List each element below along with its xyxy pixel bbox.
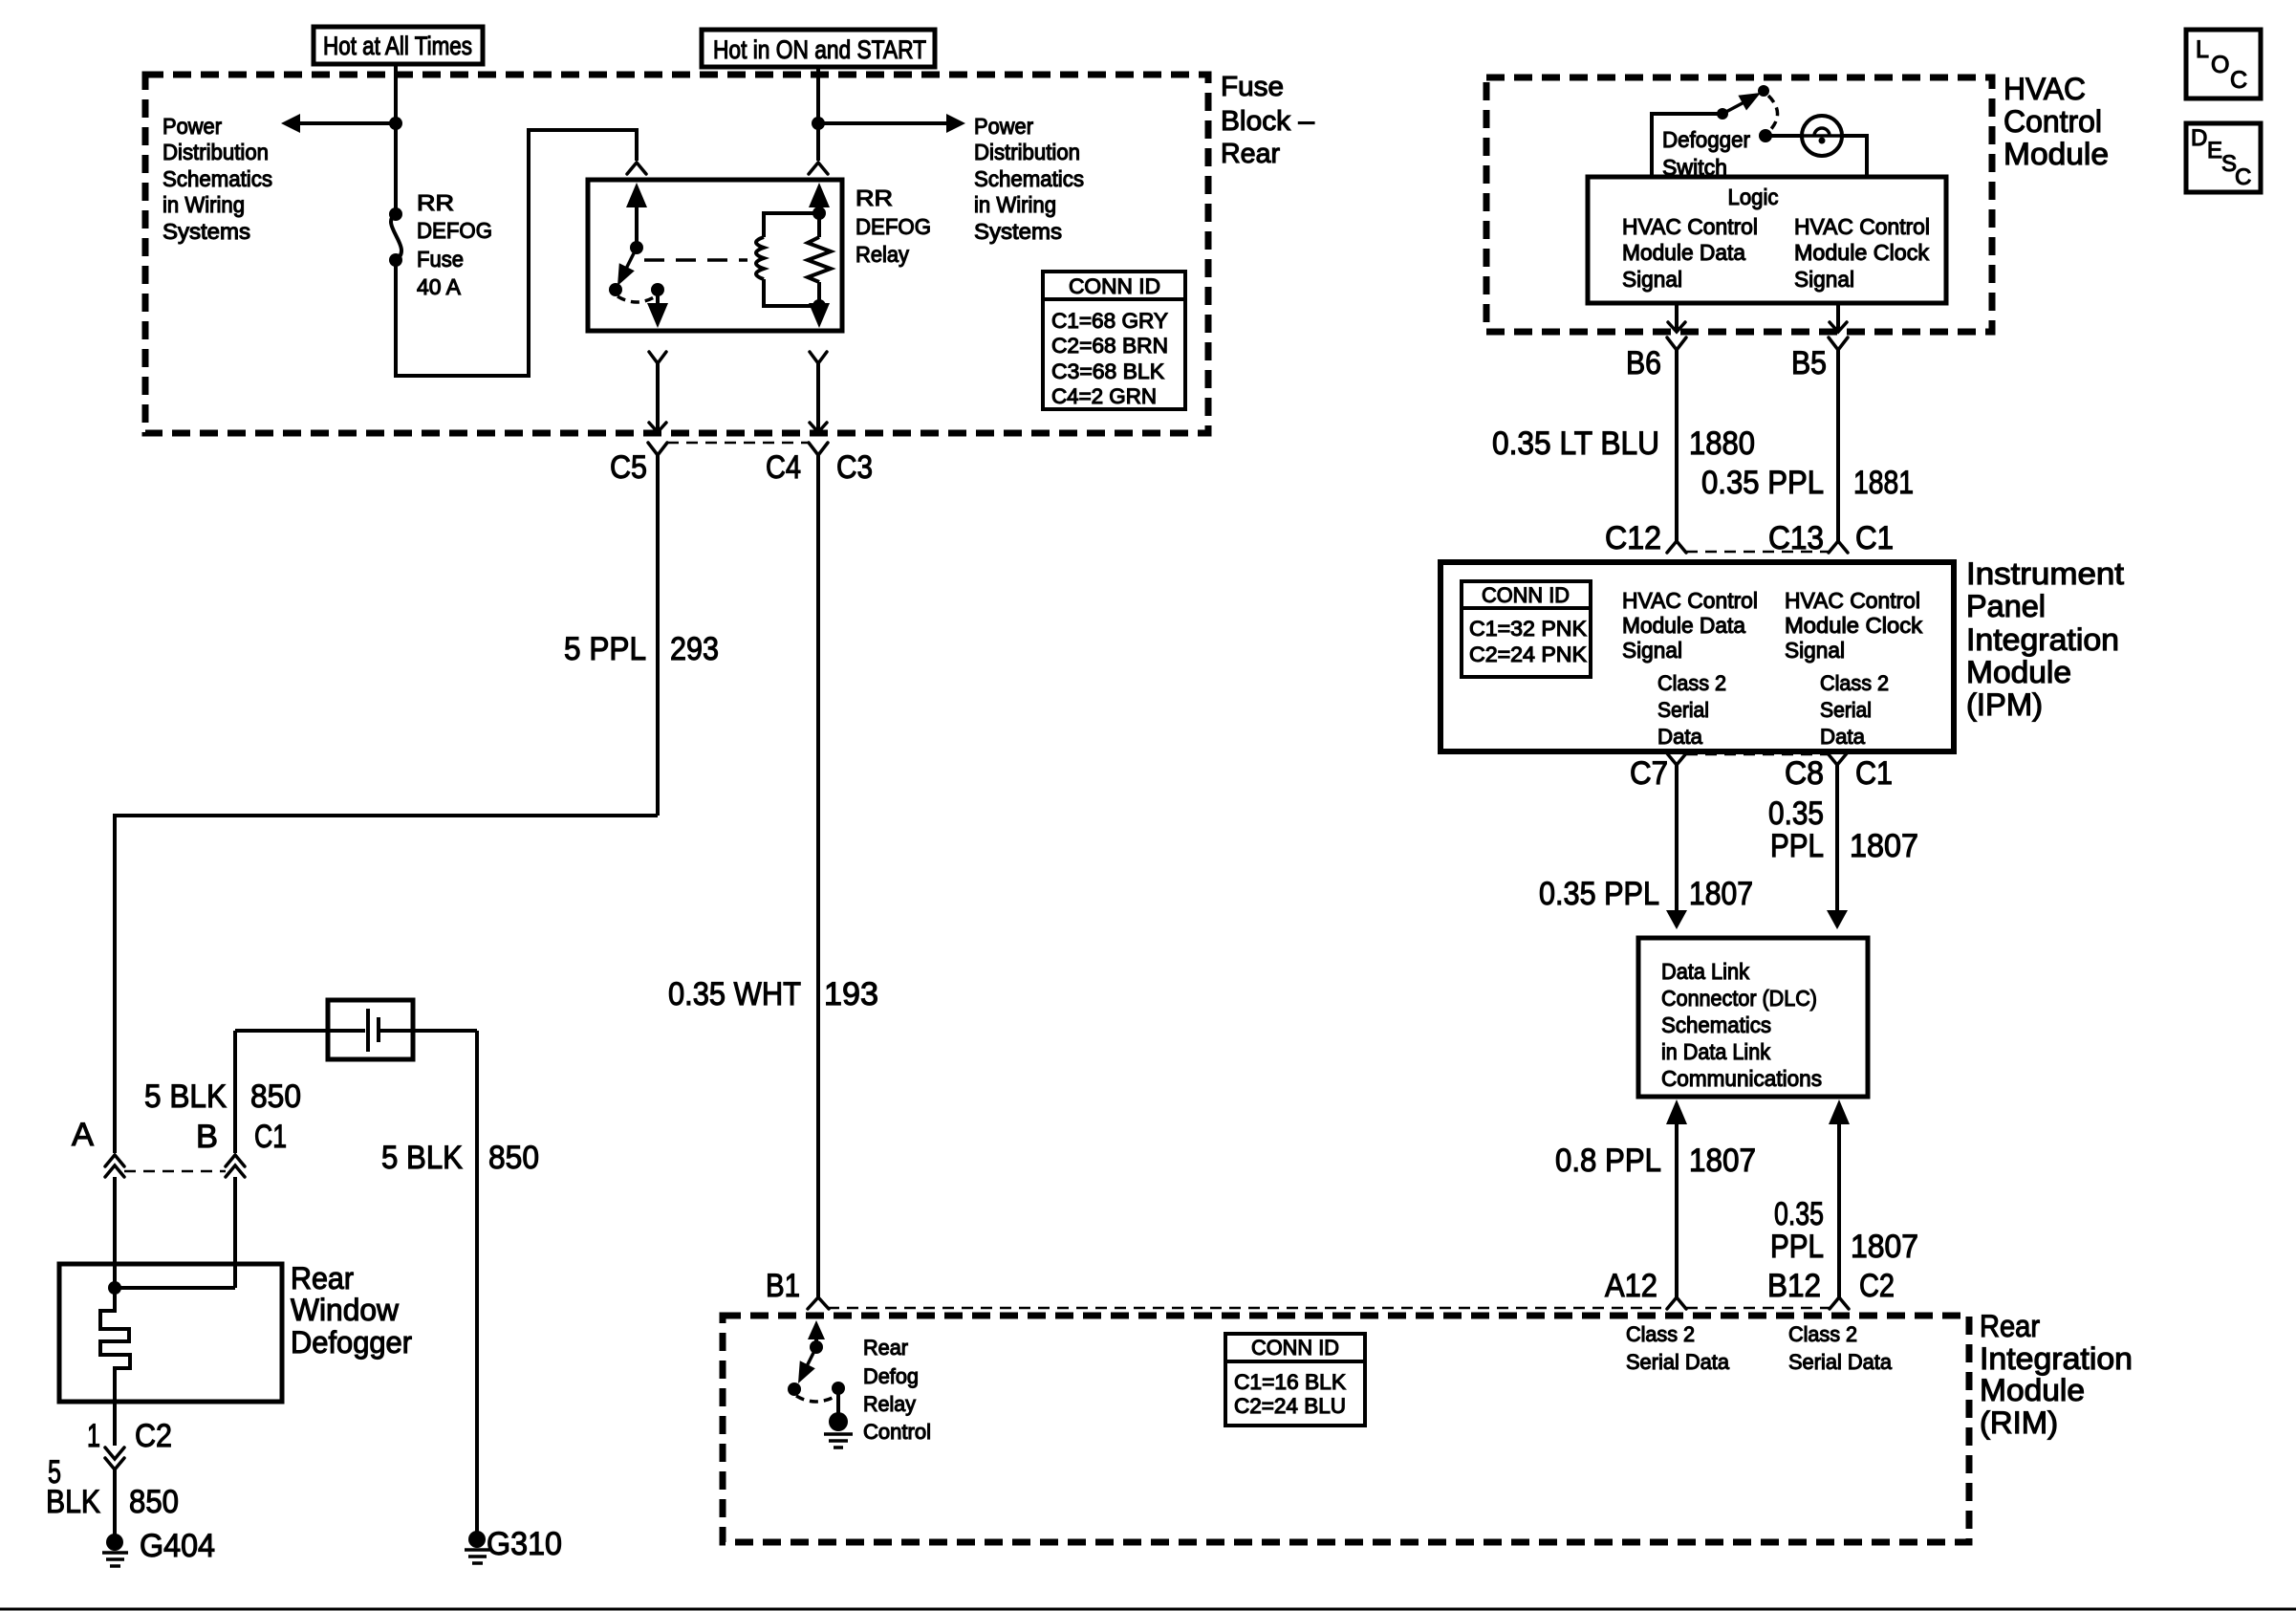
- svg-text:40 A: 40 A: [417, 274, 462, 299]
- thin dashed connector face A-B: [124, 1170, 226, 1173]
- svg-text:Signal: Signal: [1622, 638, 1682, 663]
- svg-text:Relay: Relay: [863, 1392, 916, 1416]
- svg-text:A12: A12: [1605, 1268, 1657, 1304]
- DESC reference box: [2186, 123, 2261, 192]
- wire fuse down right up to relay switch input: [396, 130, 637, 376]
- svg-text:850: 850: [488, 1140, 539, 1176]
- svg-text:0.35: 0.35: [1774, 1196, 1824, 1232]
- arrow to power distribution right: [818, 114, 965, 133]
- svg-text:C1: C1: [1855, 755, 1893, 792]
- svg-text:Module Clock: Module Clock: [1785, 613, 1923, 638]
- svg-text:HVAC Control: HVAC Control: [1622, 588, 1758, 613]
- thin dashed connector face C7-C8: [1686, 753, 1828, 756]
- junction node hot in on: [812, 117, 825, 130]
- connector C12 mark at IPM: [1667, 541, 1686, 553]
- wire label 0.35 PPL 1881: [1701, 465, 1914, 501]
- svg-text:Module: Module: [2004, 137, 2109, 171]
- label Class 2 Serial Data IPM right: [1820, 671, 1889, 749]
- svg-text:C1=16 BLK: C1=16 BLK: [1234, 1370, 1346, 1394]
- relay switch common pin arrow up: [626, 183, 647, 254]
- svg-text:E: E: [2207, 138, 2222, 163]
- svg-text:in Data Link: in Data Link: [1661, 1039, 1770, 1064]
- svg-text:1807: 1807: [1851, 1229, 1918, 1265]
- Rear Window Defogger box: [59, 1264, 282, 1402]
- wire C7 down to DLC: [1666, 753, 1687, 929]
- svg-text:C5: C5: [610, 449, 647, 486]
- svg-text:(RIM): (RIM): [1980, 1405, 2058, 1440]
- svg-text:293: 293: [670, 631, 719, 667]
- svg-text:C2=68 BRN: C2=68 BRN: [1051, 334, 1168, 358]
- connector caret into relay right pin: [809, 163, 828, 174]
- connector C5 mark below fuse block: [648, 443, 667, 816]
- thin dashed connector face C5-C4: [667, 442, 809, 445]
- svg-text:in Wiring: in Wiring: [974, 192, 1056, 217]
- svg-text:0.35 PPL: 0.35 PPL: [1701, 465, 1824, 501]
- svg-text:5 BLK: 5 BLK: [144, 1078, 227, 1115]
- svg-text:HVAC: HVAC: [2004, 72, 2086, 106]
- wire label 5 PPL 293: [564, 631, 719, 667]
- svg-text:Rear: Rear: [863, 1336, 908, 1360]
- label Rear Integration Module RIM: [1980, 1309, 2133, 1440]
- svg-text:1807: 1807: [1689, 876, 1753, 912]
- svg-text:HVAC Control: HVAC Control: [1622, 214, 1758, 239]
- rear integration module dashed enclosure: [723, 1316, 1969, 1542]
- wire label 0.8 PPL 1807: [1555, 1143, 1756, 1179]
- svg-text:1880: 1880: [1689, 425, 1755, 462]
- svg-text:C4=2 GRN: C4=2 GRN: [1051, 384, 1157, 408]
- svg-text:Class 2: Class 2: [1626, 1322, 1695, 1346]
- svg-text:Serial: Serial: [1820, 698, 1872, 722]
- relay resistor: [808, 213, 831, 306]
- svg-text:Schematics: Schematics: [1661, 1012, 1771, 1037]
- svg-text:G310: G310: [487, 1526, 562, 1562]
- svg-text:O: O: [2211, 52, 2229, 78]
- svg-text:Window: Window: [291, 1293, 400, 1327]
- label Class 2 Serial Data IPM left: [1657, 671, 1726, 749]
- ground G310: [465, 1531, 490, 1563]
- wire defogger to C2 connector: [113, 1402, 117, 1446]
- arrow to power distribution left: [281, 114, 396, 133]
- svg-text:Power: Power: [162, 114, 222, 139]
- svg-text:C1: C1: [254, 1119, 287, 1155]
- svg-text:Fuse: Fuse: [417, 247, 464, 272]
- relay coil supply pin arrow up: [809, 183, 830, 328]
- svg-text:A: A: [72, 1117, 94, 1153]
- svg-text:5 PPL: 5 PPL: [564, 631, 646, 667]
- svg-text:B1: B1: [766, 1268, 800, 1304]
- svg-text:0.35: 0.35: [1768, 795, 1824, 832]
- svg-text:Hot at All Times: Hot at All Times: [323, 32, 472, 60]
- label Rear Window Defogger: [291, 1261, 412, 1360]
- Data Link Connector DLC box: [1638, 938, 1868, 1097]
- svg-text:1807: 1807: [1689, 1143, 1756, 1179]
- label DLC Schematics in Data Link Communications: [1661, 959, 1822, 1091]
- label HVAC Control Module Clock Signal: [1794, 214, 1930, 292]
- logic box: [1588, 177, 1946, 303]
- LOC reference box: [2186, 30, 2261, 98]
- relay output wire down: [647, 290, 668, 328]
- svg-text:in Wiring: in Wiring: [162, 192, 245, 217]
- svg-text:Defogger: Defogger: [1662, 127, 1750, 152]
- label Class 2 Serial Data RIM right: [1788, 1322, 1893, 1374]
- svg-text:Logic: Logic: [1728, 185, 1779, 209]
- svg-text:Rear: Rear: [1980, 1309, 2040, 1343]
- defogger switch arm with arrow: [1722, 93, 1761, 114]
- svg-text:RR: RR: [856, 185, 893, 210]
- svg-text:B12: B12: [1767, 1268, 1821, 1304]
- junction node inside defogger: [108, 1281, 121, 1295]
- relay coil: [756, 207, 826, 313]
- svg-text:C1=32 PNK: C1=32 PNK: [1469, 617, 1587, 641]
- wire C8 down to DLC: [1827, 753, 1848, 929]
- svg-text:0.35 PPL: 0.35 PPL: [1539, 876, 1659, 912]
- svg-text:5 BLK: 5 BLK: [381, 1140, 463, 1176]
- svg-text:Defog: Defog: [863, 1364, 919, 1388]
- svg-text:DEFOG: DEFOG: [856, 214, 931, 239]
- svg-text:Serial: Serial: [1657, 698, 1709, 722]
- svg-text:Module Data: Module Data: [1622, 240, 1745, 265]
- svg-text:B6: B6: [1626, 345, 1661, 381]
- svg-text:BLK: BLK: [46, 1484, 100, 1520]
- svg-text:Rear: Rear: [1221, 139, 1280, 169]
- relay switch closed contact: [651, 283, 664, 296]
- wire lamp to logic: [1842, 136, 1867, 177]
- svg-text:850: 850: [129, 1484, 179, 1520]
- svg-text:CONN ID: CONN ID: [1251, 1336, 1339, 1360]
- defogger switch pivot contact: [1717, 108, 1728, 120]
- defogger grid heating element: [100, 1288, 130, 1402]
- internal ground of driver: [824, 1388, 853, 1448]
- CONN ID table fuse block: [1043, 272, 1185, 409]
- wire switch to lamp: [1765, 134, 1803, 138]
- svg-text:C8: C8: [1785, 755, 1824, 792]
- wire label 0.35 PPL 1807 C8 leg: [1768, 795, 1918, 864]
- svg-text:C7: C7: [1630, 755, 1668, 792]
- svg-text:Distribution: Distribution: [974, 140, 1080, 164]
- svg-text:CONN ID: CONN ID: [1069, 274, 1160, 298]
- svg-text:HVAC Control: HVAC Control: [1785, 588, 1920, 613]
- label Power Distribution Schematics in Wiring Systems right: [974, 114, 1084, 244]
- svg-text:Block –: Block –: [1221, 106, 1315, 137]
- RR DEFOG relay box: [588, 180, 842, 331]
- page bottom border: [0, 1608, 2296, 1611]
- label Rear Defog Relay Control: [863, 1336, 931, 1444]
- rear defog relay control driver arrow: [808, 1320, 825, 1354]
- svg-text:Integration: Integration: [1966, 622, 2119, 657]
- svg-text:Module: Module: [1966, 655, 2071, 689]
- svg-text:Integration: Integration: [1980, 1341, 2133, 1376]
- svg-text:Instrument: Instrument: [1966, 556, 2124, 591]
- svg-text:C3: C3: [836, 449, 873, 486]
- svg-text:C12: C12: [1605, 520, 1661, 556]
- svg-text:Communications: Communications: [1661, 1066, 1822, 1091]
- svg-text:(IPM): (IPM): [1966, 687, 2043, 722]
- svg-text:C: C: [2230, 67, 2247, 94]
- svg-text:Data: Data: [1820, 725, 1866, 749]
- wire Hot in ON and START down to relay: [816, 67, 820, 161]
- svg-text:PPL: PPL: [1770, 1229, 1824, 1265]
- thin dashed connector face C12-C13: [1686, 551, 1829, 554]
- svg-text:C2: C2: [135, 1418, 172, 1454]
- svg-text:Schematics: Schematics: [974, 166, 1084, 191]
- wire B5 out of logic: [1829, 303, 1848, 541]
- svg-text:0.35 WHT: 0.35 WHT: [668, 976, 801, 1012]
- label RR DEFOG Fuse 40 A: [417, 190, 492, 299]
- svg-text:Class 2: Class 2: [1820, 671, 1889, 695]
- wire RIM A12 up to DLC: [1666, 1099, 1687, 1309]
- connector C3 mark below fuse block: [809, 443, 828, 1297]
- label HVAC Control Module: [2004, 72, 2109, 171]
- IPM box: [1440, 562, 1954, 751]
- svg-text:HVAC Control: HVAC Control: [1794, 214, 1930, 239]
- fuse block - rear dashed enclosure: [145, 75, 1208, 433]
- svg-text:RR: RR: [417, 190, 454, 215]
- svg-text:Control: Control: [863, 1420, 931, 1444]
- driver switch right contact: [832, 1382, 845, 1395]
- wire relay switch out to C5: [649, 352, 666, 432]
- CONN ID table IPM: [1462, 581, 1591, 677]
- svg-text:Systems: Systems: [974, 219, 1062, 244]
- svg-text:Fuse: Fuse: [1221, 72, 1284, 102]
- svg-text:1807: 1807: [1850, 828, 1918, 864]
- svg-text:Serial Data: Serial Data: [1626, 1350, 1730, 1374]
- wire to ground G310: [475, 1031, 479, 1536]
- wire label 5 BLK 850 G310 leg: [381, 1140, 539, 1176]
- svg-text:B5: B5: [1791, 345, 1827, 381]
- svg-text:Distribution: Distribution: [162, 140, 269, 164]
- svg-text:PPL: PPL: [1770, 828, 1824, 864]
- svg-text:C2=24 PNK: C2=24 PNK: [1469, 642, 1587, 666]
- svg-text:C4: C4: [766, 449, 801, 486]
- svg-text:1: 1: [87, 1418, 100, 1454]
- svg-text:Hot in ON and START: Hot in ON and START: [713, 35, 926, 64]
- svg-text:Signal: Signal: [1785, 638, 1845, 663]
- svg-text:Signal: Signal: [1622, 267, 1682, 292]
- svg-text:C1=68 GRY: C1=68 GRY: [1051, 309, 1168, 333]
- svg-text:850: 850: [250, 1078, 301, 1115]
- wire from Hot at All Times down to fuse: [394, 64, 398, 212]
- connector caret into relay left pin: [627, 163, 646, 174]
- svg-text:Module: Module: [1980, 1373, 2085, 1407]
- svg-text:Power: Power: [974, 114, 1033, 139]
- label HVAC Control Module Data Signal IPM: [1622, 588, 1758, 663]
- label Class 2 Serial Data RIM left: [1626, 1322, 1730, 1374]
- dashed travel arc of relay contact: [617, 296, 656, 302]
- fuse RR DEFOG 40A: [389, 207, 402, 267]
- svg-text:Systems: Systems: [162, 219, 250, 244]
- wire relay coil out to C3: [810, 352, 827, 432]
- in-line connector A double caret: [105, 1155, 124, 1288]
- wire RIM B12 up to DLC: [1829, 1099, 1850, 1309]
- svg-text:Data: Data: [1657, 725, 1703, 749]
- svg-text:C2=24 BLU: C2=24 BLU: [1234, 1394, 1346, 1418]
- svg-text:Module Data: Module Data: [1622, 613, 1745, 638]
- wire label 0.35 LT BLU 1880: [1492, 425, 1755, 462]
- svg-text:Data Link: Data Link: [1661, 959, 1749, 984]
- wire C5 horizontal run to defogger: [115, 816, 658, 1153]
- HVAC control module dashed enclosure: [1486, 77, 1992, 332]
- dashed travel arc RIM switch: [796, 1396, 836, 1402]
- label Defogger Switch: [1662, 127, 1750, 180]
- svg-text:Control: Control: [2004, 104, 2102, 139]
- defogger switch feed wire: [1652, 114, 1718, 177]
- dashed travel arc of switch: [1768, 96, 1778, 130]
- svg-text:Signal: Signal: [1794, 267, 1854, 292]
- label Fuse Block - Rear: [1221, 72, 1315, 169]
- indicator lamp: [1802, 116, 1842, 156]
- svg-text:0.35 LT BLU: 0.35 LT BLU: [1492, 425, 1659, 462]
- noise suppressor capacitor box: [235, 1000, 477, 1059]
- svg-text:DEFOG: DEFOG: [417, 218, 492, 243]
- label HVAC Control Module Data Signal: [1622, 214, 1758, 292]
- svg-text:0.8 PPL: 0.8 PPL: [1555, 1143, 1661, 1179]
- wire label 5 BLK 850 defogger feed: [144, 1078, 301, 1115]
- svg-text:Connector (DLC): Connector (DLC): [1661, 986, 1817, 1011]
- svg-text:1881: 1881: [1853, 465, 1914, 501]
- Hot in ON and START label box: [702, 30, 935, 67]
- svg-text:Module Clock: Module Clock: [1794, 240, 1929, 265]
- defogger switch closed contact: [1759, 129, 1772, 142]
- ground G404: [102, 1534, 128, 1566]
- junction node on hot-at-all-times feed: [389, 117, 402, 130]
- wire label 5 BLK 850 ground leg: [46, 1454, 179, 1520]
- internal strap to B pin: [115, 1286, 235, 1290]
- svg-text:Panel: Panel: [1966, 589, 2046, 623]
- driver switch arm with arrowhead: [788, 1347, 816, 1396]
- label RR DEFOG Relay: [856, 185, 931, 267]
- svg-text:B: B: [196, 1119, 218, 1155]
- svg-text:Defogger: Defogger: [291, 1325, 412, 1360]
- svg-text:193: 193: [824, 976, 878, 1012]
- svg-text:Rear: Rear: [291, 1261, 354, 1295]
- wire label 0.35 PPL 1807 B12 leg: [1770, 1196, 1918, 1265]
- Hot at All Times label box: [314, 27, 483, 64]
- svg-text:C13: C13: [1768, 520, 1824, 556]
- svg-text:G404: G404: [140, 1528, 215, 1564]
- connector C13 mark at IPM: [1829, 541, 1848, 553]
- svg-text:Serial Data: Serial Data: [1788, 1350, 1893, 1374]
- svg-text:CONN ID: CONN ID: [1482, 583, 1570, 607]
- svg-text:C2: C2: [1859, 1268, 1895, 1304]
- in-line connector B C1 double caret: [226, 1031, 245, 1288]
- svg-text:D: D: [2191, 125, 2207, 151]
- svg-text:C: C: [2235, 164, 2251, 190]
- wire B6 out of logic: [1667, 303, 1686, 541]
- svg-text:Schematics: Schematics: [162, 166, 272, 191]
- wire label 0.35 PPL 1807 C7 leg: [1539, 876, 1753, 912]
- svg-text:C1: C1: [1855, 520, 1894, 556]
- relay switch arm with arrowhead: [609, 248, 637, 296]
- svg-text:C3=68 BLK: C3=68 BLK: [1051, 359, 1164, 383]
- CONN ID table RIM: [1225, 1334, 1365, 1426]
- connector B1 mark at RIM: [808, 1297, 829, 1309]
- label Instrument Panel Integration Module IPM: [1966, 556, 2124, 722]
- svg-text:Class 2: Class 2: [1788, 1322, 1857, 1346]
- in-line connector C2 double caret down: [105, 1448, 124, 1538]
- relay dashed actuation link: [644, 258, 747, 262]
- defogger switch open contact: [1758, 85, 1769, 97]
- label HVAC Control Module Clock Signal IPM: [1785, 588, 1923, 663]
- svg-text:L: L: [2196, 36, 2209, 63]
- svg-text:Relay: Relay: [856, 242, 909, 267]
- wire label 0.35 WHT 193: [668, 976, 878, 1012]
- svg-text:Class 2: Class 2: [1657, 671, 1726, 695]
- thin dashed connector face B1-A12-B12: [828, 1307, 1830, 1310]
- label Power Distribution Schematics in Wiring Systems left: [162, 114, 272, 244]
